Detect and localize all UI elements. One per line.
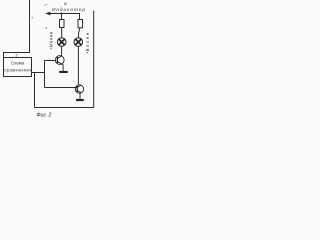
svg-text:Менее: Менее (49, 31, 54, 47)
svg-text:Схема: Схема (11, 61, 25, 66)
svg-text:Фиг. 2: Фиг. 2 (37, 112, 52, 118)
svg-text:Индикатор: Индикатор (52, 7, 85, 13)
svg-text:сравнения: сравнения (4, 67, 31, 72)
